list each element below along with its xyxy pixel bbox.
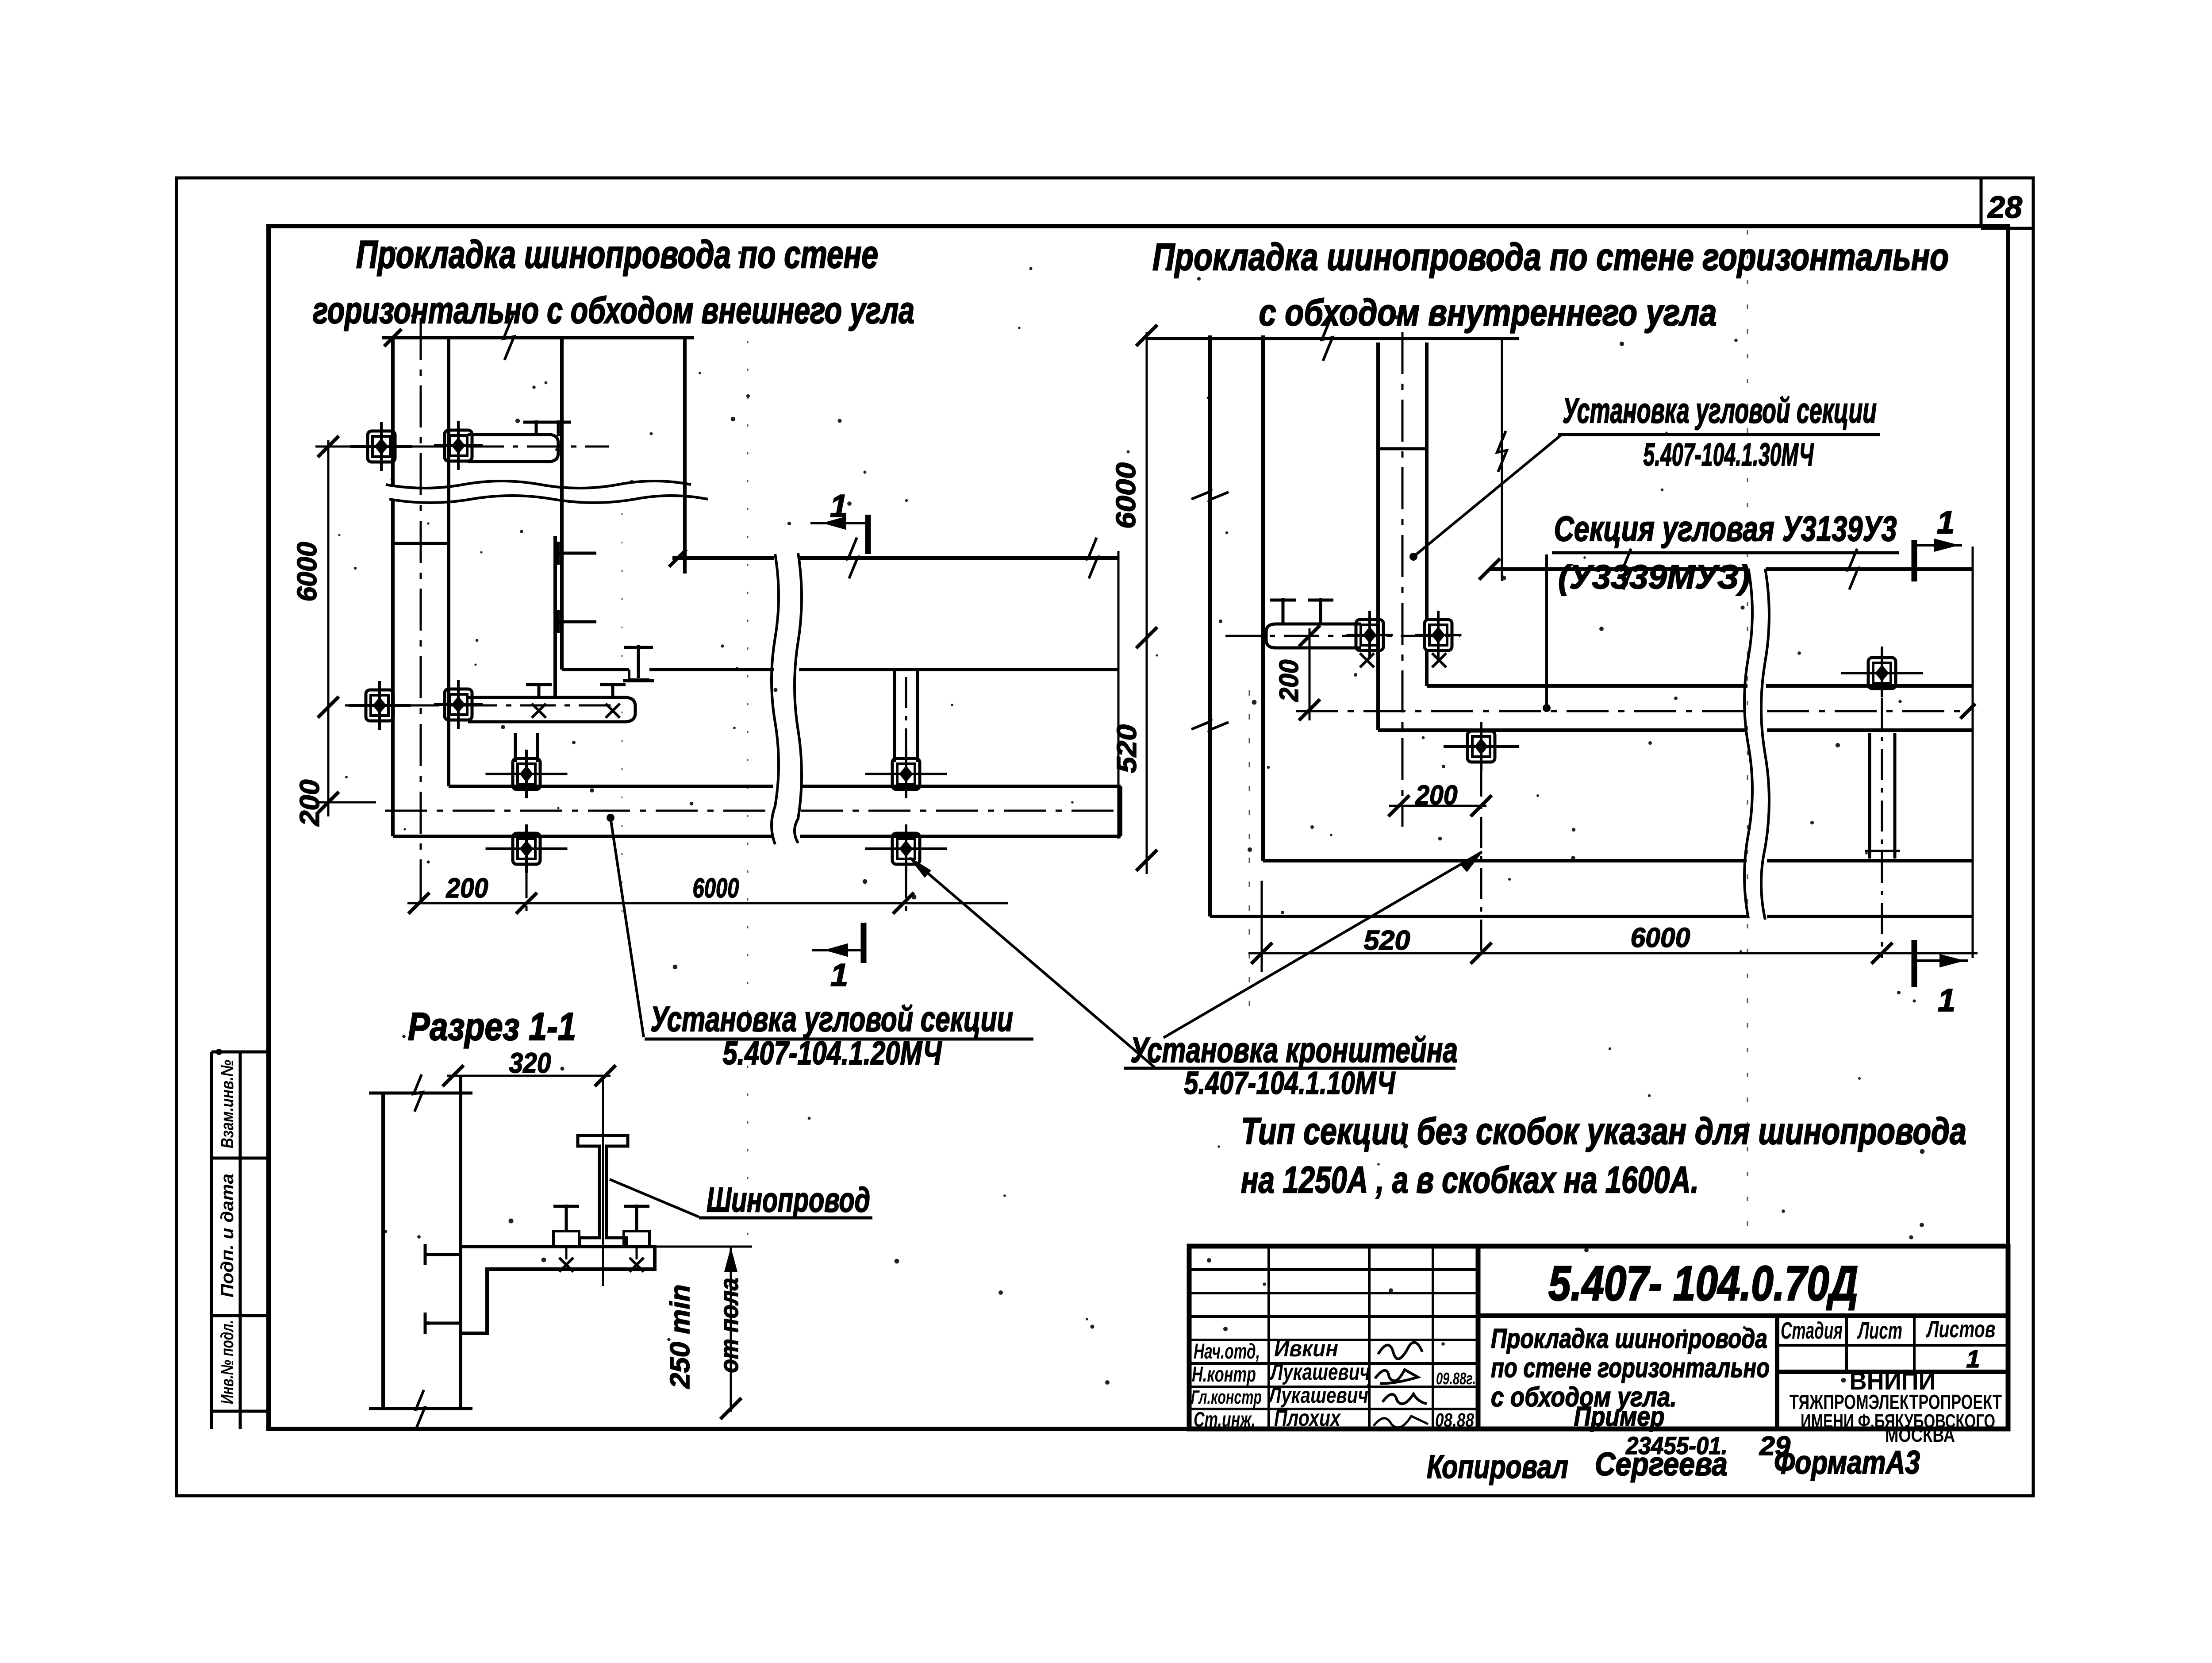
svg-text:5.407-104.1.10МЧ: 5.407-104.1.10МЧ [1184, 1066, 1396, 1101]
svg-text:1: 1 [1938, 983, 1955, 1018]
svg-text:5.407-104.1.30МЧ: 5.407-104.1.30МЧ [1644, 437, 1814, 473]
svg-text:6000: 6000 [292, 542, 323, 602]
svg-text:Ст.инж.: Ст.инж. [1194, 1408, 1256, 1432]
svg-text:Взам.инв.№: Взам.инв.№ [218, 1060, 237, 1148]
svg-text:Лукашевич: Лукашевич [1268, 1383, 1368, 1408]
svg-text:200: 200 [1415, 780, 1458, 811]
svg-text:Нач.отд,: Нач.отд, [1194, 1340, 1260, 1363]
svg-text:200: 200 [1274, 660, 1304, 702]
svg-text:от пола: от пола [715, 1278, 744, 1373]
svg-text:горизонтально с обходом внешне: горизонтально с обходом внешнего угла [313, 289, 914, 331]
svg-text:Листов: Листов [1926, 1316, 1996, 1343]
svg-text:Стадия: Стадия [1781, 1317, 1843, 1344]
svg-text:Секция угловая У3139У3: Секция угловая У3139У3 [1554, 509, 1897, 548]
svg-text:МОСКВА: МОСКВА [1885, 1424, 1955, 1446]
svg-text:по стене горизонтально: по стене горизонтально [1491, 1353, 1770, 1383]
svg-text:1: 1 [1966, 1345, 1980, 1373]
svg-text:Прокладка шинопровода по сте: Прокладка шинопровода по стене [356, 232, 878, 276]
svg-text:1: 1 [1937, 505, 1955, 540]
svg-text:Тип секции без скобок указан: Тип секции без скобок указан для шинопро… [1241, 1110, 1966, 1152]
svg-text:1: 1 [830, 489, 848, 524]
svg-text:Подп. и дата: Подп. и дата [218, 1174, 237, 1297]
svg-text:5.407-104.1.20МЧ: 5.407-104.1.20МЧ [723, 1035, 942, 1071]
svg-text:5.407- 104.0.70Д: 5.407- 104.0.70Д [1548, 1256, 1858, 1311]
svg-text:6000: 6000 [1631, 923, 1690, 953]
svg-text:520: 520 [1364, 925, 1410, 956]
svg-text:Пример: Пример [1574, 1401, 1665, 1432]
svg-text:Лукашевич: Лукашевич [1269, 1359, 1370, 1385]
svg-text:Прокладка шинопровода по ст: Прокладка шинопровода по стене горизонта… [1152, 236, 1949, 278]
svg-text:ФорматА3: ФорматА3 [1774, 1444, 1920, 1481]
svg-text:Установка угловой секции: Установка угловой секции [650, 999, 1013, 1039]
svg-text:250 min: 250 min [665, 1285, 695, 1389]
svg-text:Прокладка шинопровода: Прокладка шинопровода [1491, 1324, 1767, 1354]
svg-text:320: 320 [509, 1047, 551, 1079]
svg-text:Шинопровод: Шинопровод [707, 1180, 870, 1219]
svg-text:200: 200 [446, 873, 488, 904]
svg-text:09.88г.: 09.88г. [1436, 1370, 1476, 1388]
svg-text:Установка кронштейна: Установка кронштейна [1130, 1030, 1458, 1070]
svg-text:Ивкин: Ивкин [1274, 1336, 1338, 1362]
svg-text:6000: 6000 [693, 873, 739, 904]
svg-text:200: 200 [295, 780, 325, 827]
svg-text:6000: 6000 [1111, 462, 1141, 529]
svg-text:Плохих: Плохих [1274, 1405, 1341, 1431]
svg-text:на 1250А , а в скобках на 160: на 1250А , а в скобках на 1600А. [1241, 1159, 1699, 1201]
svg-text:Гл.констр: Гл.констр [1191, 1386, 1262, 1408]
svg-text:1: 1 [830, 958, 848, 993]
svg-text:(У3339МУЗ): (У3339МУЗ) [1558, 558, 1750, 596]
svg-text:Лист: Лист [1857, 1317, 1902, 1344]
svg-text:Копировал: Копировал [1427, 1448, 1568, 1485]
svg-text:Инв.№ подл.: Инв.№ подл. [218, 1320, 237, 1404]
svg-text:Сергеева: Сергеева [1595, 1446, 1728, 1482]
svg-text:Н.контр: Н.контр [1192, 1363, 1256, 1386]
svg-text:Разрез 1-1: Разрез 1-1 [408, 1005, 576, 1048]
svg-text:08.88: 08.88 [1435, 1409, 1474, 1431]
svg-text:520: 520 [1112, 724, 1142, 773]
svg-text:28: 28 [1987, 190, 2022, 224]
svg-text:Установка угловой секции: Установка угловой секции [1563, 391, 1877, 430]
